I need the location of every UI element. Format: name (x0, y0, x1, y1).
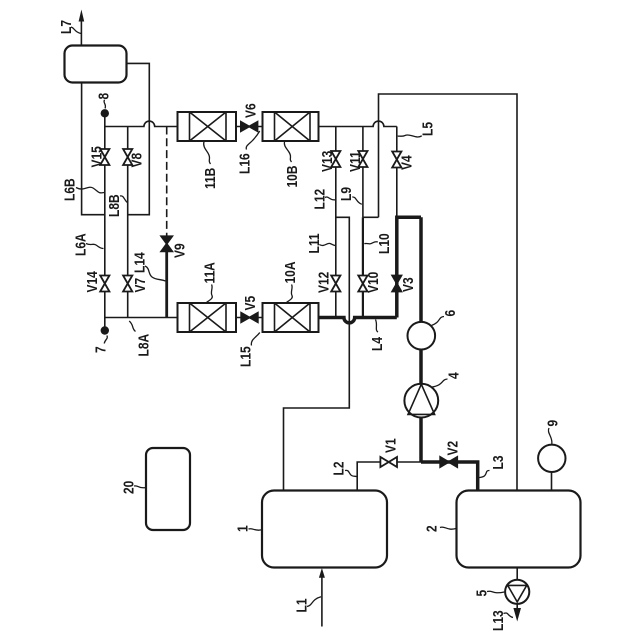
wire dashed line L14 upper to V9 (166, 127, 168, 237)
svg-text:V4: V4 (398, 155, 415, 170)
label L8A (129, 321, 152, 357)
label 9 (544, 419, 561, 444)
svg-text:V5: V5 (242, 295, 259, 310)
label L10 (364, 233, 392, 254)
svg-text:8: 8 (95, 92, 112, 99)
valve V14 (100, 276, 109, 292)
label L1 (293, 597, 321, 613)
svg-text:V2: V2 (444, 440, 461, 455)
svg-text:7: 7 (92, 346, 109, 353)
label 8 (95, 92, 112, 108)
tank 1 (262, 491, 387, 568)
wire L1 into tank1 bottom with arrow up (319, 568, 325, 627)
heat exchanger 10B (263, 112, 319, 141)
svg-text:V11: V11 (347, 151, 364, 172)
svg-text:20: 20 (120, 481, 137, 494)
svg-text:L12: L12 (311, 188, 328, 209)
wire main left line L6B/L6A through V15,V14 (104, 113, 106, 330)
svg-text:10B: 10B (284, 165, 301, 187)
label L5 (398, 122, 436, 137)
wire L14 lower from V9 to bottom line (165, 251, 168, 318)
svg-text:L15: L15 (237, 346, 254, 367)
wire bottom-left horizontal to 11A (105, 317, 178, 319)
circle 6 flow device (408, 322, 436, 350)
svg-text:6: 6 (442, 309, 459, 316)
pump 5 (505, 580, 529, 604)
svg-text:L6B: L6B (61, 178, 78, 201)
svg-text:V13: V13 (319, 150, 336, 172)
node 7 (101, 326, 109, 334)
valve V4 (392, 152, 401, 168)
label 11B (202, 142, 219, 190)
label L14 (131, 252, 165, 281)
svg-text:V12: V12 (315, 271, 332, 293)
wire L15 between 11A and 10A (236, 317, 263, 319)
svg-text:V9: V9 (171, 243, 188, 258)
wire thick junction through V2 to tank 2 (421, 462, 478, 491)
svg-text:L2: L2 (330, 461, 347, 475)
valve V8 (123, 149, 132, 165)
valve V10 (358, 276, 367, 292)
valve V6 filled horizontal (241, 122, 258, 131)
svg-text:L11: L11 (306, 233, 323, 253)
pump 4 (404, 384, 438, 418)
label 20 (120, 481, 146, 494)
wire thick pump4 to junction (419, 418, 423, 462)
label 11A (201, 262, 218, 303)
wire thick V3 loop left and top (397, 217, 421, 317)
wire L13 from pump 5 with arrow down (513, 604, 521, 622)
wire L10 vertical and L5 top right down to tank 2 (379, 94, 518, 491)
top box (separator) (65, 46, 127, 83)
wire L7 up from top box with arrow (79, 10, 85, 46)
valve V7 (123, 276, 132, 292)
svg-text:L5: L5 (419, 122, 436, 136)
wire thick down to circle 6 (419, 217, 423, 321)
label L4 (369, 320, 386, 352)
label L13 (490, 610, 513, 631)
wire L9 line through V11 (362, 127, 364, 218)
svg-text:V15: V15 (88, 146, 105, 168)
label 2 (423, 525, 456, 532)
svg-text:V3: V3 (400, 277, 417, 292)
label L8B (106, 194, 128, 217)
wire thick L4 from 10A with jump dip (319, 318, 397, 323)
wire V4 line (396, 127, 398, 218)
label L9 (338, 187, 362, 205)
heat exchanger 11B (178, 112, 237, 141)
box 20 (146, 448, 190, 530)
svg-text:V10: V10 (365, 272, 382, 293)
heat exchanger 10A (263, 303, 319, 332)
wire top-mid horizontal from 10B with jump over L10 (319, 121, 397, 126)
svg-text:L10: L10 (376, 233, 393, 254)
svg-text:5: 5 (473, 589, 490, 596)
valve V3 filled (392, 276, 401, 292)
svg-text:L9: L9 (338, 187, 355, 201)
label L16 (236, 131, 259, 174)
label L11 (306, 233, 335, 253)
wire from top box bottom down then right to V15 line (82, 83, 105, 215)
wire L16 between 11B and 10B (236, 126, 263, 128)
valve V2 filled horizontal (440, 457, 457, 467)
svg-text:11B: 11B (202, 167, 219, 189)
label 5 (473, 589, 504, 596)
svg-text:V8: V8 (128, 152, 145, 167)
svg-text:4: 4 (445, 372, 462, 379)
wire stub circle 9 to tank 2 (551, 472, 553, 491)
label 6 (432, 309, 459, 325)
valve V15 (100, 149, 109, 165)
wire second left line L8B/L8A through V8,V7 (127, 127, 129, 318)
label L7 (58, 20, 81, 34)
valve V12 (331, 276, 340, 292)
valve V1 open horizontal (380, 457, 397, 467)
svg-text:L1: L1 (293, 598, 310, 612)
svg-text:10A: 10A (282, 261, 299, 283)
node 8 (101, 109, 109, 117)
heat exchanger 11A (178, 303, 237, 332)
wire tank2 to pump 5 (516, 568, 518, 581)
svg-text:V7: V7 (132, 278, 149, 293)
label 1 (234, 525, 262, 532)
label 4 (432, 372, 462, 387)
svg-text:L8A: L8A (135, 334, 152, 357)
svg-text:L6A: L6A (72, 233, 89, 256)
label 10B (284, 142, 301, 188)
label L2 (330, 461, 357, 476)
valve V13 (331, 151, 340, 167)
wire L11 branch down to tank 1 (284, 217, 350, 490)
wire top-left horizontal with jump over box connector (105, 121, 178, 126)
valve V11 (358, 151, 367, 167)
svg-text:V14: V14 (84, 271, 101, 293)
svg-text:L8B: L8B (106, 194, 123, 217)
svg-text:L3: L3 (490, 455, 507, 469)
svg-text:V6: V6 (242, 103, 259, 118)
tank 2 (457, 491, 581, 568)
svg-text:L4: L4 (369, 337, 386, 351)
label L15 (237, 333, 260, 368)
wire L9/L10 joined line through V10 (362, 217, 364, 317)
label L6A (72, 233, 103, 256)
svg-text:11A: 11A (201, 262, 218, 284)
valve V9 filled (161, 236, 172, 251)
wire L2 from tank1 through V1 (357, 462, 421, 491)
label L6B (61, 178, 104, 201)
label 7 (92, 336, 109, 354)
svg-text:9: 9 (544, 419, 561, 426)
svg-text:L16: L16 (236, 153, 253, 174)
circle 9 sensor (538, 445, 565, 472)
svg-text:L14: L14 (131, 252, 148, 273)
label L12 (311, 188, 335, 209)
svg-text:2: 2 (423, 525, 440, 532)
wire thick circle6 to pump4 (419, 350, 423, 384)
wire from top box right side down to V8 branch (127, 63, 150, 214)
wire L12 line through V13,V12 (335, 127, 337, 318)
svg-text:V1: V1 (382, 438, 399, 453)
wire jog from L9 to L10 (363, 216, 379, 218)
label 10A (282, 261, 299, 302)
valve V5 filled horizontal (241, 313, 258, 322)
label L3 (479, 455, 507, 478)
